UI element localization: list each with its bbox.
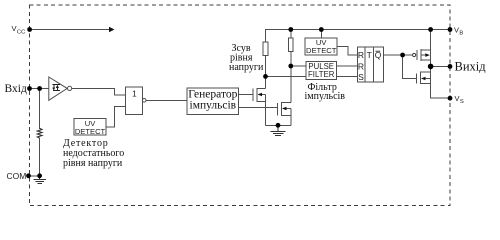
wire set line bbox=[291, 65, 306, 67]
UV DETECT low-side box bbox=[74, 119, 106, 136]
svg-text:FILTER: FILTER bbox=[308, 70, 335, 79]
gate output bubble bbox=[142, 99, 146, 103]
wire generator out upper bbox=[238, 94, 253, 96]
node output junction bbox=[428, 64, 434, 70]
svg-text:імпульсів: імпульсів bbox=[305, 91, 346, 102]
node VB pin bbox=[448, 27, 453, 32]
transistor M1 level shift bbox=[253, 88, 266, 125]
wire R1 bottom bbox=[265, 56, 267, 77]
svg-text:Вихід: Вихід bbox=[455, 60, 487, 74]
node input pin bbox=[27, 86, 32, 91]
node Vcc bbox=[27, 27, 32, 32]
wire input pulldown lower bbox=[39, 137, 41, 175]
ground COM bbox=[34, 176, 47, 184]
wire generator out lower bbox=[238, 107, 277, 109]
ground level shift bbox=[271, 125, 286, 135]
node shift ground bbox=[276, 123, 281, 128]
svg-text:DETECT: DETECT bbox=[75, 127, 106, 136]
svg-text:Генератор: Генератор bbox=[188, 88, 237, 100]
svg-text:імпульсів: імпульсів bbox=[190, 100, 237, 112]
wire UV high out to latch R bbox=[337, 47, 357, 56]
node input junction bbox=[37, 86, 42, 91]
svg-text:S: S bbox=[358, 72, 364, 82]
inverter output bubble bbox=[68, 86, 72, 90]
svg-text:T: T bbox=[367, 50, 372, 60]
Schmitt hysteresis mark bbox=[52, 85, 60, 91]
wire gate drive low bbox=[403, 55, 417, 79]
wire COM rail bbox=[29, 175, 40, 177]
wire M1 drain bbox=[265, 76, 267, 88]
resistor input pulldown zigzag bbox=[37, 128, 42, 138]
svg-text:рівня напруги: рівня напруги bbox=[63, 158, 123, 169]
svg-text:COM: COM bbox=[7, 171, 27, 181]
pulse generator box bbox=[187, 88, 238, 115]
wire Q2 source bbox=[431, 66, 450, 98]
resistor R2 bbox=[289, 38, 294, 52]
svg-text:DETECT: DETECT bbox=[306, 46, 337, 55]
wire filter out upper bbox=[337, 65, 358, 67]
arrowhead Vcc bbox=[109, 27, 115, 33]
node rail Q1 bbox=[428, 27, 433, 32]
node output pin bbox=[448, 64, 453, 69]
node rail UV bbox=[319, 27, 324, 32]
wire reset line bbox=[266, 75, 306, 77]
transistor Q1 output high bbox=[413, 49, 431, 61]
resistor R1 bbox=[263, 42, 268, 56]
svg-text:напруги: напруги bbox=[229, 62, 264, 73]
wire filter out lower bbox=[337, 75, 358, 77]
svg-text:R: R bbox=[358, 50, 364, 60]
wire level shift source rail bbox=[266, 124, 291, 126]
node COM pin bbox=[26, 173, 31, 178]
svg-text:R: R bbox=[358, 61, 364, 71]
transistor Q2 output low bbox=[417, 72, 431, 84]
PULSE FILTER box bbox=[306, 62, 337, 80]
wire gate to generator bbox=[146, 99, 187, 101]
wire input pulldown upper bbox=[39, 89, 41, 130]
wire inverter out bbox=[72, 88, 126, 95]
wire latch output bbox=[384, 54, 413, 56]
wire output bbox=[431, 65, 450, 67]
wire Q1 drain bbox=[430, 30, 432, 67]
wire high side rail bbox=[266, 30, 451, 43]
wire UV detect high input bbox=[320, 30, 322, 39]
wire M2 drain bbox=[290, 66, 292, 103]
svg-text:Вхід: Вхід bbox=[5, 83, 27, 95]
node R2 bottom bbox=[288, 64, 293, 69]
transistor M2 level shift bbox=[278, 102, 291, 125]
wire input to inverter bbox=[30, 88, 49, 90]
wire Vcc supply arrow bbox=[30, 29, 110, 31]
node COM junction bbox=[37, 173, 42, 178]
UV DETECT high-side box bbox=[305, 38, 337, 55]
node R1 bottom bbox=[263, 74, 268, 79]
logic gate U1 box bbox=[126, 87, 143, 114]
latch RS box bbox=[358, 47, 384, 82]
node gate junction bbox=[400, 53, 405, 58]
op-amp input Schmitt buffer bbox=[49, 77, 67, 100]
svg-text:1: 1 bbox=[132, 89, 137, 99]
node VS pin bbox=[448, 96, 453, 101]
wire R2 top bbox=[290, 30, 292, 38]
wire R2 bottom bbox=[290, 51, 292, 66]
node rail R2 bbox=[288, 27, 293, 32]
wire UV detect out bbox=[106, 106, 126, 126]
IC dashed boundary bbox=[30, 5, 451, 206]
